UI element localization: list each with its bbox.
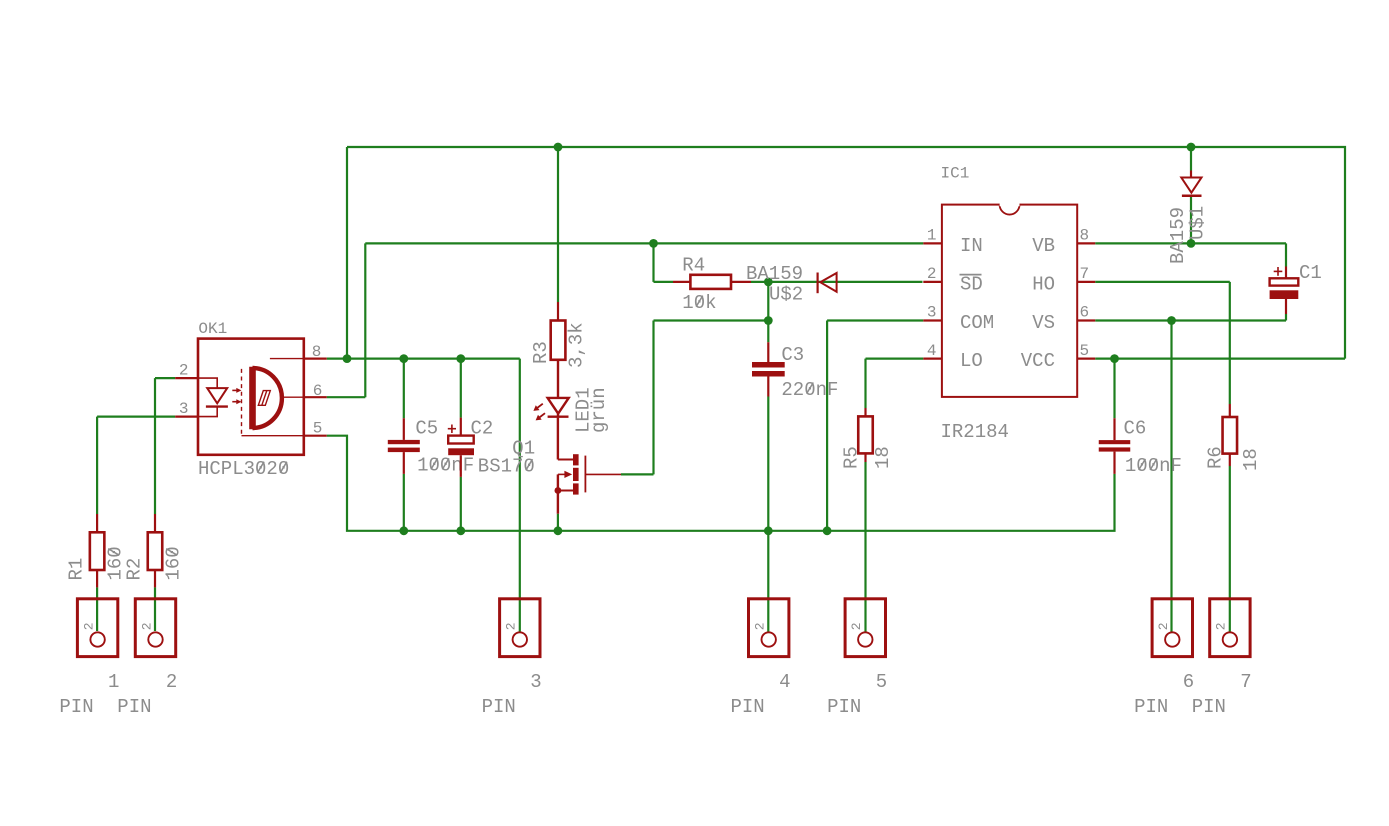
svg-text:5: 5 bbox=[313, 419, 323, 437]
svg-text:3: 3 bbox=[530, 671, 541, 693]
junction C5 top bbox=[399, 354, 408, 363]
svg-text:R1: R1 bbox=[66, 558, 88, 581]
wire VB row bbox=[1095, 242, 1286, 244]
wire C5 bottom bbox=[403, 474, 405, 531]
Q1 gate bar bbox=[584, 456, 586, 493]
Q1 source junction bbox=[555, 487, 562, 494]
svg-text:VCC: VCC bbox=[1021, 350, 1055, 372]
svg-text:220nF: 220nF bbox=[781, 379, 838, 401]
svg-text:C5: C5 bbox=[415, 418, 438, 440]
pin 6 lead OK1 bbox=[304, 396, 327, 398]
label U$1 bbox=[1187, 206, 1209, 240]
svg-text:2: 2 bbox=[1214, 622, 1229, 630]
svg-text:VS: VS bbox=[1032, 312, 1055, 334]
svg-text:IR2184: IR2184 bbox=[941, 421, 1009, 443]
junction Q1 source bbox=[554, 526, 563, 535]
C3 bottom pin bbox=[767, 377, 769, 397]
label R1 bbox=[66, 558, 88, 581]
wire U$1 cathode bbox=[1190, 197, 1192, 244]
svg-text:IC1: IC1 bbox=[941, 165, 970, 183]
svg-text:8: 8 bbox=[1080, 227, 1090, 245]
svg-text:HCPL3020: HCPL3020 bbox=[198, 458, 289, 480]
wire U$1 anode bbox=[1190, 147, 1192, 171]
svg-text:3: 3 bbox=[927, 304, 937, 322]
junction C3 bottom / PIN4 bbox=[764, 526, 773, 535]
connector PIN 1 pad bbox=[77, 599, 117, 657]
PIN 4 pad pin number 2 bbox=[753, 622, 768, 630]
wire VCC row from IC1 pin5 bbox=[1095, 358, 1345, 360]
connector PIN 7 pad bbox=[1210, 599, 1250, 657]
svg-text:2: 2 bbox=[166, 671, 177, 693]
OK1 internal LED bbox=[198, 378, 217, 388]
wire HO to R6 bbox=[1229, 282, 1231, 404]
wire to R1 bbox=[96, 417, 98, 514]
svg-text:C2: C2 bbox=[471, 418, 494, 440]
wire R4 right bbox=[751, 281, 768, 283]
wire R5 to PIN 5 pad bbox=[864, 462, 866, 632]
pin 8 lead OK1 bbox=[304, 358, 327, 360]
pin 1 lead IN bbox=[923, 242, 942, 244]
C2 bottom pin bbox=[460, 455, 462, 477]
wire C2 bottom bbox=[460, 477, 462, 531]
svg-text:R5: R5 bbox=[841, 446, 863, 469]
pin 8 lead VB bbox=[1077, 242, 1095, 244]
junction U$1 cathode / VB bbox=[1187, 239, 1196, 248]
LED1 emission arrows bbox=[537, 404, 543, 408]
wire C2 top bbox=[460, 359, 462, 418]
pin 2 lead SD bbox=[923, 281, 942, 283]
IC U1: IC1 IR2184 box bbox=[942, 205, 1077, 397]
svg-text:2: 2 bbox=[849, 622, 864, 630]
svg-text:4: 4 bbox=[779, 671, 790, 693]
wire R2 to PIN 2 pad bbox=[154, 587, 156, 631]
pin 7 lead HO bbox=[1077, 281, 1095, 283]
C5 top pin bbox=[403, 418, 405, 440]
svg-text:8: 8 bbox=[312, 343, 322, 361]
pin 3 lead COM bbox=[923, 319, 942, 321]
junction U$1 / VCC bbox=[1187, 143, 1196, 152]
PIN 6 pad pin number 2 bbox=[1156, 622, 1171, 630]
svg-text:10k: 10k bbox=[682, 292, 716, 314]
wire VCC to C6 bbox=[1113, 359, 1115, 419]
wire Q1 source to bus bbox=[557, 514, 559, 531]
wire Q1 gate link bbox=[621, 473, 654, 475]
junction C5 bottom bbox=[399, 526, 408, 535]
wire to R4 left bbox=[654, 281, 674, 283]
R1 bottom lead bbox=[96, 570, 98, 587]
SD overline bbox=[960, 274, 982, 276]
wire OK1 pin6 link bbox=[327, 396, 366, 398]
label R6 bbox=[1205, 446, 1227, 469]
Q1 source lead bbox=[557, 474, 559, 513]
svg-text:100nF: 100nF bbox=[417, 455, 474, 477]
wire VCC top rail bbox=[347, 147, 1345, 359]
PIN 5 pad pin number 2 bbox=[849, 622, 864, 630]
svg-text:U$1: U$1 bbox=[1187, 206, 1209, 240]
wire VB to C1 plus bbox=[1285, 243, 1287, 266]
svg-text:5: 5 bbox=[876, 671, 887, 693]
pin 5 lead VCC bbox=[1077, 358, 1095, 360]
C2 top pin bbox=[460, 418, 462, 436]
R6 top lead bbox=[1229, 404, 1231, 417]
LED LED1 bbox=[548, 398, 569, 414]
svg-text:2: 2 bbox=[504, 622, 519, 630]
LED1 cathode join bbox=[557, 414, 559, 418]
wire R1 to PIN 1 pad bbox=[96, 587, 98, 631]
wire OK1 pin3 link bbox=[97, 416, 175, 418]
wire IN drop to R4 bbox=[652, 243, 654, 282]
PIN 2 pad pin number 2 bbox=[139, 622, 154, 630]
svg-text:3: 3 bbox=[179, 400, 189, 418]
svg-text:IN: IN bbox=[960, 235, 983, 257]
C6 bottom pin bbox=[1113, 452, 1115, 474]
value 18 R6 bbox=[1240, 448, 1262, 471]
svg-text:160: 160 bbox=[163, 546, 185, 580]
svg-text:2: 2 bbox=[179, 362, 189, 380]
svg-text:C6: C6 bbox=[1124, 418, 1147, 440]
C2 plus sign bbox=[451, 425, 453, 434]
R2 bottom lead bbox=[154, 570, 156, 587]
R3 bottom lead to LED1 bbox=[557, 360, 559, 398]
R4 right lead bbox=[731, 281, 751, 283]
svg-text:2: 2 bbox=[139, 622, 154, 630]
junction C2 top bbox=[456, 354, 465, 363]
wire LO to R5 bbox=[864, 359, 866, 408]
wire VS row bbox=[1095, 319, 1286, 321]
wire COM to ground bus bbox=[826, 321, 828, 531]
wire R6 to PIN 7 pad bbox=[1229, 466, 1231, 632]
svg-text:2: 2 bbox=[753, 622, 768, 630]
wire VCC left drop bbox=[346, 147, 348, 359]
PIN 7 pad pin number 2 bbox=[1214, 622, 1229, 630]
svg-text:18: 18 bbox=[1240, 448, 1262, 471]
svg-text:R4: R4 bbox=[682, 254, 705, 276]
R5 bottom lead bbox=[864, 453, 866, 462]
junction R4 / U$2 / C3 bbox=[764, 278, 773, 287]
svg-text:2: 2 bbox=[1156, 622, 1171, 630]
pin 2 lead OK1 bbox=[175, 377, 198, 379]
junction IN / R4 bbox=[649, 239, 658, 248]
pin 6 lead VS bbox=[1077, 319, 1095, 321]
label R3 bbox=[530, 341, 552, 364]
svg-text:PIN: PIN bbox=[1192, 696, 1226, 718]
svg-text:SD: SD bbox=[960, 273, 983, 295]
pin 5 lead OK1 bbox=[304, 435, 327, 437]
svg-text:PIN: PIN bbox=[731, 696, 765, 718]
value 18 R5 bbox=[872, 446, 894, 469]
wire down to C3 node bbox=[767, 282, 769, 321]
Q1 drain lead bbox=[557, 418, 559, 460]
wire HO row bbox=[1095, 281, 1230, 283]
svg-text:5: 5 bbox=[1080, 342, 1090, 360]
svg-text:R6: R6 bbox=[1205, 446, 1227, 469]
svg-text:100nF: 100nF bbox=[1125, 455, 1182, 477]
C1 plus sign bbox=[1277, 267, 1279, 276]
svg-text:7: 7 bbox=[1240, 671, 1251, 693]
svg-text:4: 4 bbox=[927, 342, 937, 360]
svg-text:VB: VB bbox=[1032, 235, 1055, 257]
wire to SD through U$2 bbox=[768, 281, 922, 283]
junction COM / bus bbox=[823, 526, 832, 535]
R2 top lead bbox=[154, 514, 156, 532]
C6 top pin bbox=[1113, 418, 1115, 440]
svg-text:C1: C1 bbox=[1299, 262, 1322, 284]
svg-text:PIN: PIN bbox=[59, 696, 93, 718]
svg-text:PIN: PIN bbox=[117, 696, 151, 718]
C3 top pin bbox=[767, 342, 769, 362]
svg-text:OK1: OK1 bbox=[198, 320, 227, 338]
wire COM row bbox=[827, 319, 923, 321]
svg-text:U$2: U$2 bbox=[769, 284, 803, 306]
C1 top pin bbox=[1285, 267, 1287, 279]
pin 4 lead LO bbox=[923, 358, 942, 360]
wire IN to OK1 pin6 bbox=[364, 243, 366, 397]
PIN 1 pad pin number 2 bbox=[81, 622, 96, 630]
label R2 bbox=[124, 558, 146, 581]
R1 top lead bbox=[96, 514, 98, 532]
connector PIN 3 pad bbox=[500, 599, 540, 657]
IC1 notch bbox=[1000, 205, 1020, 215]
wire ground bus bbox=[327, 436, 1115, 531]
wire to PIN 3 pad bbox=[519, 359, 521, 633]
junction R3 top / VCC bbox=[554, 143, 563, 152]
svg-text:7: 7 bbox=[1080, 265, 1090, 283]
junction C2 bottom bbox=[456, 526, 465, 535]
svg-text:COM: COM bbox=[960, 312, 994, 334]
junction C3 node bbox=[764, 316, 773, 325]
diode U$2 BA159 bbox=[816, 273, 818, 294]
svg-text:1: 1 bbox=[108, 671, 119, 693]
U$1 anode stub bbox=[1190, 171, 1192, 178]
pin 3 lead OK1 bbox=[175, 416, 198, 418]
svg-text:1: 1 bbox=[927, 227, 937, 245]
wire gate branch bbox=[654, 319, 769, 321]
OK1 barrier dashed line bbox=[241, 369, 243, 436]
wire C3 bottom to PIN 4 pad bbox=[767, 397, 769, 633]
OK1 detector gate bbox=[249, 367, 256, 429]
svg-text:PIN: PIN bbox=[1134, 696, 1168, 718]
wire C1 bottom link bbox=[1285, 314, 1287, 321]
label R5 bbox=[841, 446, 863, 469]
Q1 substrate arrow bbox=[558, 473, 565, 475]
wire OK1 pin8 net bbox=[327, 358, 520, 360]
svg-text:6: 6 bbox=[313, 382, 323, 400]
svg-text:grün: grün bbox=[588, 387, 610, 433]
junction VCC drop / OK1 pin8 net bbox=[343, 354, 352, 363]
R5 top lead bbox=[864, 408, 866, 416]
C5 bottom pin bbox=[403, 452, 405, 474]
svg-text:18: 18 bbox=[872, 446, 894, 469]
svg-text:BA159: BA159 bbox=[746, 263, 803, 285]
R3 top lead bbox=[557, 302, 559, 321]
svg-text:2: 2 bbox=[81, 622, 96, 630]
connector PIN 4 pad bbox=[749, 599, 789, 657]
svg-text:LO: LO bbox=[960, 350, 983, 372]
value 3,3k bbox=[566, 322, 588, 368]
svg-text:BS170: BS170 bbox=[478, 456, 535, 478]
wire C5 top bbox=[403, 359, 405, 419]
junction C6 / VCC bbox=[1110, 354, 1119, 363]
OK1 internal pin lines bbox=[270, 358, 304, 360]
PIN 3 pad pin number 2 bbox=[504, 622, 519, 630]
connector PIN 5 pad bbox=[845, 599, 885, 657]
OK1 hysteresis symbol bbox=[258, 391, 270, 406]
wire VCC to R3 bbox=[557, 147, 559, 302]
wire LO row bbox=[866, 358, 924, 360]
value grün bbox=[588, 387, 610, 433]
wire VS to PIN 6 pad bbox=[1170, 321, 1172, 633]
svg-text:2: 2 bbox=[927, 265, 937, 283]
junction VS / PIN6 bbox=[1167, 316, 1176, 325]
wire down to Q1 gate bbox=[652, 321, 654, 475]
label LED1 bbox=[572, 387, 594, 433]
svg-text:R3: R3 bbox=[530, 341, 552, 364]
svg-text:PIN: PIN bbox=[482, 696, 516, 718]
R4 left lead bbox=[673, 281, 690, 283]
svg-text:6: 6 bbox=[1183, 671, 1194, 693]
connector PIN 6 pad bbox=[1152, 599, 1192, 657]
wire IN net row bbox=[365, 242, 923, 244]
svg-text:PIN: PIN bbox=[827, 696, 861, 718]
Q1 gate lead bbox=[585, 473, 621, 475]
svg-text:3,3k: 3,3k bbox=[566, 322, 588, 368]
OK1 light arrows bbox=[232, 389, 237, 391]
C1 bottom pin bbox=[1285, 299, 1287, 314]
svg-text:HO: HO bbox=[1032, 273, 1055, 295]
wire to R2 bbox=[154, 378, 156, 514]
wire C3 top bbox=[767, 321, 769, 343]
optocoupler OK1 HCPL3020 bbox=[198, 339, 304, 455]
value 160 R2 bbox=[163, 546, 185, 580]
wire OK1 pin2 link bbox=[155, 377, 175, 379]
label BA159 U$1 bbox=[1167, 207, 1189, 264]
svg-text:R2: R2 bbox=[124, 558, 146, 581]
connector PIN 2 pad bbox=[135, 599, 175, 657]
R6 bottom lead bbox=[1229, 454, 1231, 466]
svg-text:C3: C3 bbox=[781, 344, 804, 366]
svg-text:6: 6 bbox=[1080, 304, 1090, 322]
value 160 R1 bbox=[105, 546, 127, 580]
